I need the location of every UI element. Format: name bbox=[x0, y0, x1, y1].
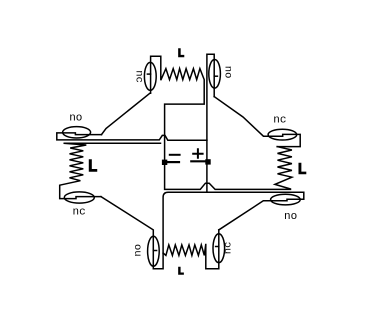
svg-text:L: L bbox=[178, 267, 184, 278]
battery lead right bbox=[191, 160, 205, 162]
contact tick inside bottom-left oval bbox=[153, 250, 156, 252]
inductor L2 (right, vertical zigzag) bbox=[275, 147, 292, 189]
contact top-right oval envelope no bbox=[209, 60, 221, 89]
svg-text:nc: nc bbox=[132, 70, 144, 83]
svg-text:L: L bbox=[178, 49, 185, 61]
svg-text:nc: nc bbox=[73, 206, 86, 218]
svg-text:L: L bbox=[88, 157, 98, 176]
svg-text:no: no bbox=[132, 244, 144, 257]
reed switch right-bottom no oval envelope bbox=[271, 194, 301, 205]
wire: diagonal from top-right contact to right nc reed internal line with step bbox=[214, 97, 300, 147]
reed switch right-top nc oval envelope bbox=[268, 129, 297, 140]
svg-text:no: no bbox=[222, 66, 234, 79]
battery terminal node right (plus) square dot bbox=[205, 159, 210, 164]
reed switch left-top no oval envelope bbox=[63, 127, 91, 138]
svg-text:no: no bbox=[69, 113, 82, 125]
left bus bar: oval arm, left end cap and T1 rail with hop over battery-left wire bbox=[57, 133, 207, 140]
contact tick inside top-right oval bbox=[214, 75, 217, 77]
inductor L4 (bottom zigzag) with brackets to bottom-right contact bbox=[163, 230, 219, 269]
plus sign bbox=[193, 149, 202, 158]
battery terminal node left (minus) square dot bbox=[162, 160, 167, 165]
minus sign bbox=[170, 154, 180, 156]
svg-text:nc: nc bbox=[273, 115, 286, 127]
contact tick inside top-left oval bbox=[147, 73, 150, 75]
capacitor/contact C1 top-left oval envelope nc bbox=[144, 62, 156, 90]
reed switch left-bottom nc oval envelope bbox=[64, 192, 94, 203]
wire: top-left contact bracket, top inductor feed, battery-left plate wire and lower bus B1 bbox=[151, 56, 291, 189]
wire: battery-right plate vertical from top-right bracket down to lower bus B2 bbox=[207, 54, 214, 192]
wire: diagonal from left no reed up to top-left contact bbox=[102, 93, 151, 135]
contact bottom-right oval envelope nc bbox=[213, 234, 225, 263]
battery lead left bbox=[167, 161, 179, 163]
svg-text:nc: nc bbox=[222, 242, 234, 255]
wire: diagonal from left-bottom nc reed down to bottom-left contact, its internal line, bracket to riser and lower bus B2 with right end cap wrapping right no reed bbox=[101, 192, 304, 268]
contact tick inside bottom-right oval bbox=[216, 246, 219, 248]
svg-text:L: L bbox=[298, 162, 307, 179]
svg-text:no: no bbox=[284, 211, 297, 223]
contact bottom-left oval envelope no bbox=[148, 236, 160, 266]
left bus rail T2 and inductor L3 (left, vertical zigzag) bbox=[60, 143, 161, 198]
